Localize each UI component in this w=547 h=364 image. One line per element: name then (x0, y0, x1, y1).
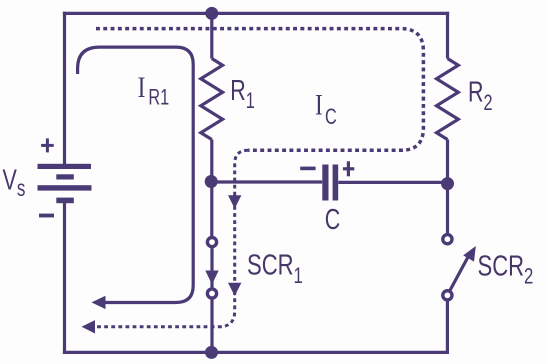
wire: capacitor branch right (338, 181, 447, 184)
wire: R2 to SCR2 (446, 140, 449, 234)
battery Vs plate 3 (long) (38, 185, 92, 190)
wire: SCR1 to bottom rail (210, 299, 213, 353)
svg-text:SCR2: SCR2 (478, 251, 534, 289)
arrow: SCR1 blade (down) (205, 271, 218, 285)
wire: right rail top (446, 12, 449, 59)
SCR1 bottom terminal circle (207, 289, 216, 298)
svg-text:Vs: Vs (3, 164, 26, 201)
wire: IC return branch (dashed) (94, 150, 248, 326)
SCR2 bottom terminal circle (443, 291, 452, 300)
wire: top rail (63, 12, 449, 15)
wire: SCR2 to bottom rail (446, 301, 449, 355)
arrow: SCR2 blade (up-right) (463, 246, 476, 262)
svg-text:C: C (325, 105, 337, 130)
current loop IR1 (solid) (78, 47, 194, 302)
arrow: IC at SCR1 level (down) (228, 283, 241, 296)
arrow: IC loop end (left) (82, 320, 96, 333)
wire: left rail upper (to battery) (63, 12, 66, 165)
node: bottom junction (205, 346, 218, 359)
battery Vs plate 1 (long +) (38, 164, 92, 169)
SCR2 top terminal circle (443, 235, 452, 244)
resistor R2 (437, 59, 459, 140)
arrow: IC at cap level (down) (228, 195, 241, 208)
wire: R1 to SCR1 (210, 140, 213, 237)
battery - sign (39, 214, 54, 218)
svg-text:SCR1: SCR1 (247, 250, 303, 289)
svg-text:R1: R1 (230, 75, 255, 114)
svg-text:C: C (325, 204, 340, 236)
svg-text:I: I (315, 88, 323, 121)
battery Vs plate 4 (short -) (56, 198, 74, 204)
node: right junction (cap right) (441, 177, 454, 190)
SCR1 blade (210, 248, 213, 289)
capacitor C right plate (333, 165, 339, 201)
arrow: IR1 loop end (left) (92, 296, 106, 309)
wire: left rail lower (battery to bottom) (63, 200, 66, 354)
wire: bottom rail (63, 351, 449, 354)
node: top junction (205, 7, 218, 20)
SCR1 top terminal circle (207, 238, 216, 247)
battery + sign (41, 144, 54, 147)
battery Vs plate 2 (short) (56, 174, 74, 179)
svg-text:R2: R2 (468, 76, 493, 115)
SCR2 blade (450, 257, 468, 291)
capacitor - sign (300, 167, 315, 171)
capacitor + sign (343, 167, 354, 170)
current loop IC (dotted) (96, 29, 423, 151)
node: middle junction (cap left) (205, 175, 218, 188)
capacitor C left plate (322, 165, 328, 201)
wire: capacitor branch left (211, 180, 322, 183)
svg-text:I: I (138, 70, 146, 103)
resistor R1 (201, 59, 223, 140)
wire: middle branch top (210, 13, 213, 58)
svg-text:R1: R1 (148, 85, 169, 110)
